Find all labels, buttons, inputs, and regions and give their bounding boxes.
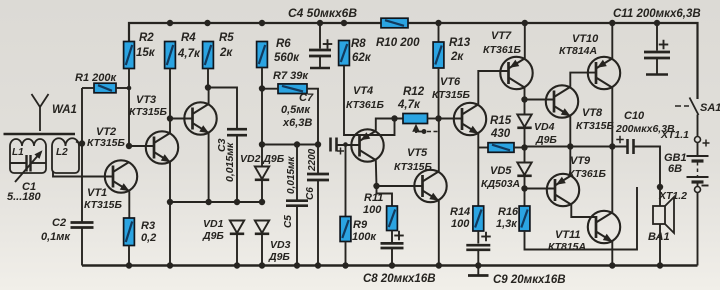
label C7	[299, 92, 314, 104]
label VD1	[203, 218, 224, 230]
svg-text:2к: 2к	[450, 51, 464, 63]
wire VT11 collector	[611, 147, 613, 213]
label VT10 type	[559, 45, 597, 57]
svg-text:R8: R8	[351, 38, 366, 50]
label VT4	[353, 85, 373, 97]
wire VT8 emitter	[569, 116, 571, 175]
label VT6 type	[432, 89, 471, 101]
svg-text:R4: R4	[181, 32, 196, 44]
label VT4 type	[346, 99, 385, 111]
svg-text:VD2 Д9Б: VD2 Д9Б	[240, 153, 285, 165]
label R1	[75, 72, 117, 84]
label VT3 type	[129, 106, 168, 118]
label VT7 type	[483, 44, 522, 56]
label SA1	[700, 102, 720, 114]
label VT5 type	[394, 161, 433, 173]
svg-text:VT1: VT1	[87, 187, 107, 199]
wire C2 to bus	[81, 228, 83, 266]
label C10 value	[615, 123, 675, 135]
svg-text:SA1: SA1	[700, 102, 720, 114]
wire VT1 emitter	[128, 191, 130, 218]
wire VT6 base link	[439, 118, 463, 120]
wire C3 bottom lead	[236, 136, 238, 203]
resistor R12	[403, 114, 428, 124]
wire R16 top lead	[524, 189, 526, 207]
resistor R10	[381, 18, 408, 28]
wire detector node	[170, 201, 262, 203]
svg-text:R6: R6	[276, 38, 291, 50]
transistor VT4	[351, 129, 383, 161]
node output emitter junction	[567, 143, 573, 149]
wire VD5 bottom	[524, 176, 526, 189]
svg-text:0,015мк: 0,015мк	[224, 142, 236, 182]
node R6 top junction	[259, 20, 265, 26]
resistor R13	[433, 42, 444, 68]
label VT7	[491, 30, 512, 42]
wire C9 to bus	[477, 250, 479, 266]
svg-text:R11: R11	[364, 192, 383, 204]
svg-text:15к: 15к	[136, 47, 156, 59]
svg-text:КТ315Б: КТ315Б	[87, 137, 126, 149]
svg-text:R5: R5	[219, 32, 234, 44]
inductor L2	[52, 138, 79, 173]
label R16	[498, 206, 519, 218]
capacitor C6	[307, 174, 329, 180]
node R9 bus junction	[342, 262, 348, 268]
transistor VT3	[184, 102, 216, 134]
label R8	[351, 38, 366, 50]
wire R5 bottom lead	[207, 69, 209, 88]
wire R9 to bus	[345, 242, 347, 266]
svg-text:ХТ1.1: ХТ1.1	[660, 129, 689, 141]
diode VD4	[517, 115, 531, 128]
node VT5 bus junction	[436, 262, 442, 268]
node VT2 emitter junction	[167, 199, 173, 205]
transistor VT2	[146, 131, 178, 163]
node R12 left junction	[391, 115, 397, 121]
label C4	[288, 6, 357, 20]
wire C6 top lead	[317, 145, 319, 175]
label R14 value	[451, 218, 470, 230]
svg-text:R14: R14	[450, 206, 470, 218]
label R9 value	[352, 231, 377, 243]
wire VT2 base link	[129, 145, 154, 147]
svg-text:С10: С10	[624, 110, 645, 122]
label R12	[403, 86, 425, 98]
svg-text:L2: L2	[56, 147, 68, 158]
node C5 bus junction	[294, 262, 300, 268]
label L1	[12, 147, 24, 158]
node VT11 bus junction	[609, 262, 615, 268]
svg-text:х6,3В: х6,3В	[282, 117, 312, 129]
label R11	[364, 192, 383, 204]
svg-text:2к: 2к	[219, 47, 233, 59]
wire C4 stem	[319, 23, 321, 49]
label VT9	[570, 155, 591, 167]
svg-text:R12: R12	[403, 86, 425, 98]
wire R8 bottom lead	[344, 66, 395, 136]
wire R7 right lead	[307, 89, 318, 145]
svg-text:КТ361Б: КТ361Б	[346, 99, 385, 111]
label C9 plus	[481, 232, 491, 242]
resistor R1	[94, 83, 116, 93]
label R6 value	[274, 52, 300, 64]
wire VT6 collector	[478, 71, 508, 104]
label XT1.2 minus	[702, 185, 709, 187]
svg-text:VT10: VT10	[572, 33, 599, 45]
wire VD5 top	[524, 148, 526, 163]
label R6	[276, 38, 291, 50]
transistor VT9	[547, 174, 579, 206]
svg-text:R2: R2	[139, 32, 154, 44]
node VD3 bus junction	[259, 262, 265, 268]
terminal XT1.1	[695, 137, 701, 143]
transistor VT7	[500, 57, 532, 89]
wire VT3 base link	[170, 118, 193, 120]
wire VT4 collector	[375, 160, 378, 186]
capacitor C9	[466, 245, 490, 250]
label VT11 type	[548, 241, 586, 253]
transistor VT11	[588, 211, 620, 243]
node VT2 bus junction	[167, 262, 173, 268]
svg-text:С7: С7	[299, 92, 314, 104]
label R8 value	[352, 52, 372, 64]
label C5 value	[286, 156, 297, 194]
resistor R4	[165, 42, 176, 69]
label VT1	[87, 187, 107, 199]
antenna WA1	[32, 94, 49, 131]
svg-text:VT4: VT4	[353, 85, 373, 97]
label GB1	[664, 152, 687, 164]
wire VT7 emitter	[524, 23, 526, 58]
svg-text:КТ315Б: КТ315Б	[129, 106, 168, 118]
resistor R15	[488, 143, 514, 153]
capacitor C2	[71, 223, 94, 228]
wire VD2 to C7 node	[262, 144, 318, 146]
resistor R2	[124, 42, 135, 69]
wire speaker top	[659, 187, 661, 206]
label XT1.1 plus	[703, 140, 710, 147]
label VD3 type	[268, 251, 290, 263]
label R14	[450, 206, 470, 218]
svg-text:R9: R9	[353, 219, 368, 231]
wire VD2 bottom	[261, 180, 263, 202]
svg-text:R16: R16	[498, 206, 519, 218]
label VD3	[270, 239, 291, 251]
label C10	[624, 110, 645, 122]
label R4 value	[177, 48, 201, 60]
label C6	[305, 187, 316, 200]
node C9 bus junction	[475, 262, 481, 268]
svg-text:5...180: 5...180	[7, 191, 42, 203]
label C7 value2	[282, 117, 312, 129]
label VD5 type	[481, 178, 520, 190]
label VT8	[582, 107, 603, 119]
wire R12 right lead	[428, 118, 439, 120]
label VD5	[490, 165, 512, 177]
node R10 right junction	[435, 20, 441, 26]
node output collector junction	[609, 143, 615, 149]
wire R6 bottom lead	[261, 68, 263, 168]
resistor R5	[203, 42, 214, 69]
svg-text:КТ315Б: КТ315Б	[576, 120, 615, 132]
label BA1	[648, 231, 670, 243]
svg-text:0,2: 0,2	[141, 232, 156, 244]
resistor R3	[124, 218, 135, 246]
capacitor C7	[331, 138, 337, 152]
svg-text:4,7к: 4,7к	[177, 48, 201, 60]
resistor R8	[339, 41, 350, 66]
label C9	[493, 274, 566, 286]
wire VT10 emitter	[611, 23, 613, 58]
svg-text:VD5: VD5	[490, 165, 512, 177]
node VT3 collector junction	[205, 84, 211, 90]
svg-text:1,3к: 1,3к	[496, 218, 518, 230]
wire VD3 to bus	[261, 234, 263, 266]
label VT3	[136, 94, 156, 106]
wire VT3 collector	[208, 88, 210, 105]
label R11 value	[363, 204, 382, 216]
label C10 plus	[616, 136, 624, 144]
wire R1 right lead	[116, 87, 129, 89]
label C7 plus	[337, 148, 344, 155]
node C3-VD1 junction	[234, 199, 240, 205]
wire output node	[525, 146, 628, 148]
wire VD4 bottom	[524, 128, 526, 148]
svg-text:0,5мк: 0,5мк	[281, 104, 311, 116]
svg-text:КТ814А: КТ814А	[559, 45, 597, 57]
svg-text:VT6: VT6	[440, 76, 461, 88]
node C6 bus junction	[315, 262, 321, 268]
svg-text:0,1мк: 0,1мк	[41, 231, 71, 243]
speaker BA1	[653, 197, 674, 233]
transistor VT6	[454, 103, 486, 135]
node R7 left junction	[259, 85, 265, 91]
svg-text:6В: 6В	[668, 163, 682, 175]
capacitor C5	[286, 201, 308, 206]
node C7 left junction	[315, 141, 321, 147]
wire L2 top link	[76, 142, 82, 145]
node VT4 base junction	[343, 142, 348, 147]
wire VT9 base link	[525, 188, 556, 190]
svg-text:С9 20мкх16В: С9 20мкх16В	[493, 274, 566, 286]
wire L2 to VT1 base	[53, 171, 113, 177]
svg-text:L1: L1	[12, 147, 24, 158]
wire R14 to C9	[477, 231, 479, 244]
label R9	[353, 219, 368, 231]
resistor R11	[387, 206, 398, 231]
svg-text:КТ315Б: КТ315Б	[432, 89, 471, 101]
capacitor C10	[628, 139, 634, 154]
wire C4 bottom stem	[319, 56, 321, 68]
label C8	[363, 273, 436, 285]
node VD4-R15 junction	[521, 144, 527, 150]
label VT8 type	[576, 120, 615, 132]
svg-text:VT5: VT5	[407, 147, 428, 159]
svg-text:R1 200к: R1 200к	[75, 72, 117, 84]
node VT3 emitter junction	[205, 199, 211, 205]
wire C8 to bus	[391, 248, 393, 266]
transistor VT8	[546, 85, 578, 117]
node R3 bus junction	[126, 262, 132, 268]
wire R4 bottom lead	[169, 69, 171, 134]
wire antenna node column	[81, 88, 83, 223]
wire R15 left lead	[478, 147, 488, 149]
label R13 value	[450, 51, 464, 63]
svg-text:4,7к: 4,7к	[397, 99, 421, 111]
transistor VT1	[105, 160, 137, 192]
label VD1 type	[202, 230, 224, 242]
wire R3 to bus	[128, 246, 130, 266]
node C5 top junction	[294, 141, 300, 147]
label VT2	[96, 126, 116, 138]
wire speaker bottom	[659, 224, 661, 266]
wire VD1 to bus	[236, 234, 238, 266]
node R1-R2 junction	[127, 86, 132, 91]
wire VT8 collector	[570, 73, 596, 87]
label R5 value	[219, 47, 233, 59]
svg-text:КТ815А: КТ815А	[548, 241, 586, 253]
svg-text:VT7: VT7	[491, 30, 512, 42]
wire VT10 collector	[611, 88, 613, 147]
label C11 plus	[659, 40, 669, 50]
ground bar C11	[646, 73, 668, 76]
node VT1 collector junction	[126, 143, 132, 149]
label VD4	[534, 121, 555, 133]
ground bar C4	[310, 67, 330, 70]
label XT1.2	[658, 190, 687, 202]
wire C6 to bus	[317, 180, 319, 266]
diode VD3	[255, 221, 269, 234]
label C1	[22, 181, 36, 193]
node C8 bus junction	[389, 262, 395, 268]
svg-text:430: 430	[490, 128, 511, 140]
wire VT7 collector	[524, 88, 526, 114]
svg-text:КТ361Б: КТ361Б	[568, 168, 607, 180]
node VT10 emitter junction	[609, 20, 615, 26]
label VT9 type	[568, 168, 607, 180]
wire R1 left lead	[82, 87, 94, 89]
wire VT6 emitter	[477, 134, 479, 206]
wire VT5 base link	[377, 185, 423, 187]
label VD4 type	[535, 134, 557, 146]
label R4	[181, 32, 196, 44]
wire C7 right lead	[337, 144, 360, 146]
svg-text:Д9Б: Д9Б	[535, 134, 557, 146]
label XT1.1	[660, 129, 689, 141]
svg-text:R10 200: R10 200	[376, 37, 420, 49]
label R2	[139, 32, 154, 44]
label C5	[283, 215, 294, 228]
svg-text:VD3: VD3	[270, 239, 291, 251]
svg-text:VD1: VD1	[203, 218, 224, 230]
label VT5	[407, 147, 428, 159]
resistor R7	[278, 84, 307, 94]
wire VT3 emitter	[208, 133, 210, 202]
wire top supply bus left	[129, 23, 381, 42]
svg-text:VT11: VT11	[555, 229, 580, 241]
wire R2 bottom lead	[128, 69, 130, 147]
transistor VT10	[588, 57, 620, 89]
svg-text:С6: С6	[305, 187, 316, 200]
wire top supply bus right	[408, 23, 698, 99]
svg-text:100: 100	[451, 218, 470, 230]
svg-text:ВА1: ВА1	[648, 231, 670, 243]
wire XT1.2 to bus	[697, 193, 699, 266]
switch SA1	[675, 98, 699, 116]
wire VT5 collector	[438, 119, 440, 172]
node VD2 top junction	[259, 141, 265, 147]
transistor VT5	[414, 170, 446, 202]
wire C11 bottom stem	[656, 58, 658, 74]
label WA1	[52, 104, 77, 116]
wire R9 top lead	[345, 145, 347, 217]
svg-text:VT8: VT8	[582, 107, 603, 119]
node VT3 base junction	[167, 115, 173, 121]
label R13	[449, 37, 471, 49]
svg-text:2200: 2200	[307, 148, 318, 172]
svg-text:Д9Б: Д9Б	[202, 230, 224, 242]
diode VD1	[230, 221, 244, 234]
svg-text:КТ315Б: КТ315Б	[84, 199, 123, 211]
wire R13 top lead	[438, 23, 440, 42]
resistor R16	[519, 206, 530, 231]
node R13 bottom junction	[435, 115, 441, 121]
label R7	[273, 70, 309, 82]
svg-text:С4 50мкх6В: С4 50мкх6В	[288, 6, 357, 20]
svg-text:С8 20мкх16В: С8 20мкх16В	[363, 273, 436, 285]
label C11	[613, 8, 701, 20]
label R5	[219, 32, 234, 44]
wire R13 bottom lead	[438, 68, 440, 119]
label GB1 value	[668, 163, 682, 175]
label C6 value	[307, 148, 318, 172]
wire VT2 emitter	[169, 162, 171, 266]
svg-text:ХТ1.2: ХТ1.2	[658, 190, 687, 202]
svg-text:КТ361Б: КТ361Б	[483, 44, 522, 56]
capacitor C8	[381, 243, 404, 248]
wire R7 left lead	[262, 88, 278, 90]
label R3 value	[141, 232, 156, 244]
wire R16 bootstrap	[525, 187, 638, 250]
battery GB1	[687, 143, 709, 187]
label C2	[52, 217, 66, 229]
label R3	[141, 220, 155, 232]
wire VT9 collector	[571, 205, 596, 217]
node VD2-VD3 junction	[259, 199, 265, 205]
node C11 top junction	[654, 20, 660, 26]
wire R15 right lead	[514, 147, 525, 149]
wire VT4 emitter	[376, 119, 403, 131]
R12 wiper arrow	[412, 124, 437, 134]
wire VT4 collector to R11	[377, 186, 393, 206]
node VD5-R16 junction	[521, 185, 527, 191]
label VT11	[555, 229, 580, 241]
svg-text:100к: 100к	[352, 231, 377, 243]
svg-text:КД503А: КД503А	[481, 178, 520, 190]
label R15	[490, 115, 512, 127]
node VT8 base junction	[521, 96, 527, 102]
label R12 value	[397, 99, 421, 111]
label R15 value	[490, 128, 511, 140]
svg-text:0,015мк: 0,015мк	[286, 156, 297, 194]
label C4 plus	[323, 39, 333, 49]
svg-text:VT3: VT3	[136, 94, 156, 106]
node VD1 bus junction	[234, 262, 240, 268]
node speaker bus junction	[657, 262, 663, 268]
wire common bottom bus	[82, 264, 698, 267]
node R5 top junction	[204, 20, 210, 26]
